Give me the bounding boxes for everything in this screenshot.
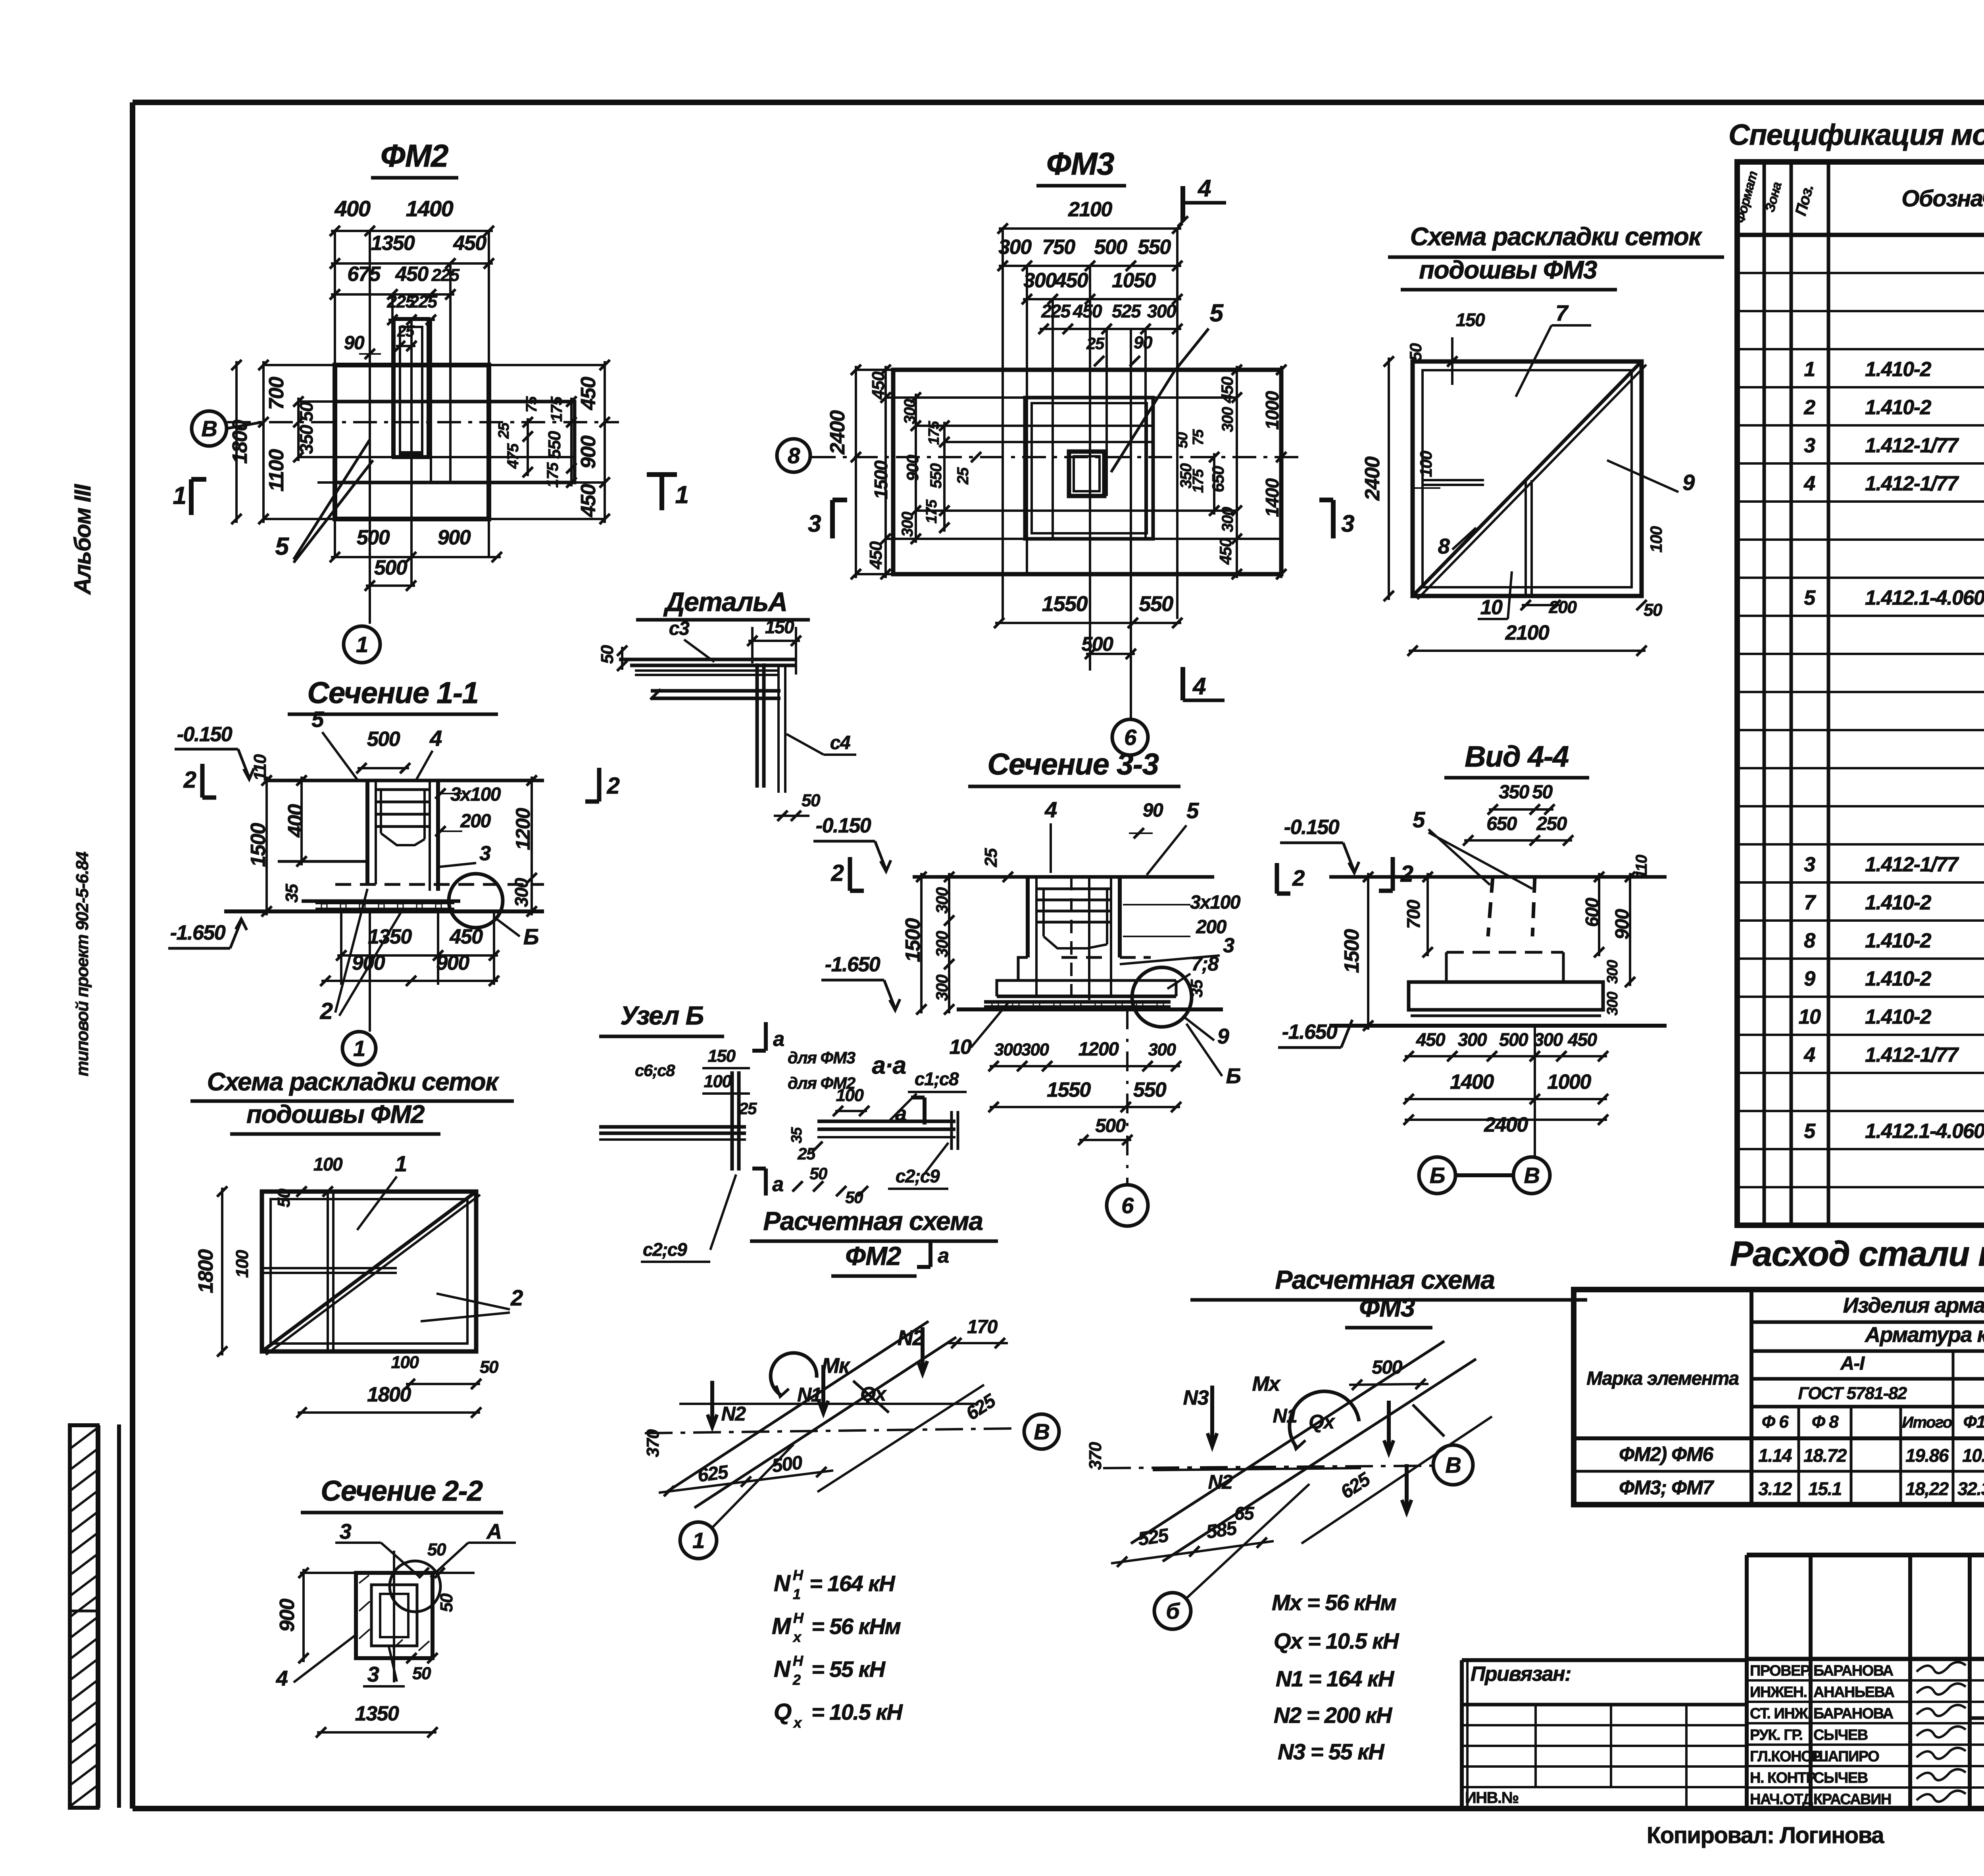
svg-text:25: 25 [954, 467, 972, 485]
svg-text:90: 90 [1143, 800, 1163, 821]
svg-text:5: 5 [1210, 300, 1224, 327]
svg-text:225: 225 [431, 265, 460, 285]
svg-text:ФМ2: ФМ2 [845, 1241, 901, 1271]
section flag 3 right [1331, 500, 1336, 538]
dim 700 view44 [1426, 873, 1429, 956]
svg-text:50: 50 [427, 1540, 446, 1559]
svg-text:300: 300 [1458, 1029, 1487, 1050]
spec table row lines [1737, 272, 1984, 274]
svg-text:25: 25 [397, 323, 415, 340]
section flag 1 right [659, 475, 664, 510]
svg-text:3: 3 [479, 842, 491, 865]
svg-text:N1: N1 [797, 1384, 821, 1406]
steel table frame [1574, 1290, 1984, 1505]
mesh FM3 square [1413, 361, 1642, 596]
svg-text:а: а [895, 1102, 906, 1125]
svg-text:СТ. ИНЖ.: СТ. ИНЖ. [1750, 1705, 1811, 1722]
svg-text:100: 100 [1647, 526, 1665, 553]
svg-text:НАЧ.ОТД: НАЧ.ОТД [1750, 1791, 1813, 1808]
svg-text:15.1: 15.1 [1808, 1478, 1842, 1499]
bottom dim 1550 550 sec33 [990, 1106, 1180, 1108]
svg-text:10: 10 [1799, 1005, 1821, 1028]
svg-text:1800: 1800 [367, 1383, 411, 1406]
svg-text:400: 400 [335, 196, 371, 221]
svg-text:х: х [793, 1715, 802, 1731]
svg-text:ФМ3; ФМ7: ФМ3; ФМ7 [1619, 1476, 1714, 1499]
svg-text:300: 300 [1148, 1040, 1177, 1059]
svg-text:500: 500 [357, 526, 390, 549]
svg-text:370: 370 [643, 1429, 663, 1457]
svg-text:900: 900 [438, 526, 471, 549]
svg-text:8: 8 [1438, 534, 1450, 558]
svg-text:8: 8 [1804, 929, 1815, 952]
svg-text:350: 350 [296, 425, 317, 454]
svg-text:550: 550 [927, 463, 945, 488]
svg-text:150: 150 [708, 1046, 736, 1066]
svg-text:3: 3 [808, 510, 821, 537]
svg-text:СЫЧЕВ: СЫЧЕВ [1813, 1727, 1868, 1743]
sec33 column walls [1026, 877, 1030, 957]
section 2-2 inner box [380, 1594, 408, 1637]
left dim 1500 view44 [1367, 873, 1369, 1030]
svg-text:450: 450 [395, 263, 429, 286]
bottom dimension 500 [366, 584, 415, 587]
sec33 step outline [997, 957, 1028, 996]
right dimension chain 450 900 450 [604, 361, 606, 523]
svg-text:110: 110 [1633, 855, 1650, 879]
left dimension 1500 400 110 [265, 777, 268, 915]
plan FM3 horizontal axis [812, 456, 1302, 458]
calc FM2 circle V [1024, 1414, 1059, 1449]
svg-text:типовой проект 902-5-6.84: типовой проект 902-5-6.84 [73, 852, 92, 1076]
svg-text:Привязан:: Привязан: [1471, 1663, 1571, 1686]
svg-text:Сечение 2-2: Сечение 2-2 [321, 1475, 483, 1507]
step line of section 1-1 [278, 860, 367, 863]
svg-text:300: 300 [1219, 407, 1236, 432]
svg-text:Qх = 10.5 кН: Qх = 10.5 кН [1274, 1628, 1400, 1653]
svg-text:ГЛ.КОНСР: ГЛ.КОНСР [1750, 1748, 1821, 1765]
svg-text:300: 300 [901, 399, 919, 424]
svg-text:2400: 2400 [1361, 456, 1384, 501]
svg-text:700: 700 [265, 377, 288, 410]
mesh FM3 dim 2400 left [1388, 358, 1390, 600]
svg-text:с4: с4 [830, 732, 850, 753]
svg-text:1: 1 [1804, 358, 1815, 381]
svg-text:Схема раскладки сеток: Схема раскладки сеток [207, 1067, 500, 1096]
svg-text:7;8: 7;8 [1191, 953, 1219, 975]
plan FM3 mesh rect [1025, 398, 1153, 539]
svg-text:Узел Б: Узел Б [620, 1001, 704, 1030]
calc FM3 circle V [1433, 1445, 1473, 1485]
svg-text:1.412.1-4.060: 1.412.1-4.060 [1865, 586, 1984, 609]
svg-text:2400: 2400 [826, 410, 849, 455]
bottom dim chain 300 300 1200 300 [990, 1065, 1180, 1067]
svg-text:300: 300 [932, 887, 951, 914]
svg-text:РУК. ГР.: РУК. ГР. [1750, 1727, 1803, 1743]
svg-text:6: 6 [1124, 725, 1137, 750]
svg-text:19.86: 19.86 [1905, 1445, 1949, 1466]
svg-text:1.412-1/77: 1.412-1/77 [1865, 472, 1959, 495]
svg-text:50: 50 [412, 1664, 431, 1683]
section flag 4 bottom [1180, 667, 1185, 700]
svg-text:1500: 1500 [871, 460, 891, 499]
svg-text:1500: 1500 [902, 918, 925, 962]
section flag 2 left [200, 764, 205, 798]
detail A vertical bars [756, 663, 759, 788]
flag a bottom uzel [764, 1169, 768, 1196]
bottom dimension 900 900 [321, 980, 498, 982]
left dim chain 175 550 175 [943, 422, 946, 532]
axis circle 6 bottom [1112, 719, 1148, 755]
svg-text:750: 750 [1042, 236, 1075, 259]
bottom dim 1550 550 [995, 622, 1181, 624]
svg-text:1050: 1050 [1112, 269, 1156, 292]
section flag 4 top [1180, 186, 1185, 221]
svg-text:3: 3 [1341, 510, 1354, 537]
svg-text:1550: 1550 [1047, 1078, 1091, 1101]
svg-text:5: 5 [275, 533, 290, 560]
svg-text:= 56 кНм: = 56 кНм [811, 1614, 901, 1639]
svg-text:200: 200 [460, 811, 491, 832]
svg-text:175: 175 [923, 499, 940, 523]
svg-text:1400: 1400 [406, 196, 454, 221]
svg-text:700: 700 [1403, 900, 1424, 929]
section 2-2 outer box [356, 1573, 433, 1658]
svg-text:300: 300 [1021, 1040, 1050, 1059]
svg-text:50: 50 [1406, 343, 1425, 361]
svg-text:с6;с8: с6;с8 [635, 1061, 675, 1080]
mesh FM3 diagonal [1413, 361, 1642, 596]
svg-text:75: 75 [1190, 429, 1207, 446]
left dimension chain 1800 [235, 361, 238, 523]
plan FM3 extension verticals [1002, 229, 1004, 619]
svg-text:450: 450 [1055, 269, 1088, 292]
svg-text:1500: 1500 [1340, 929, 1363, 973]
svg-text:300: 300 [932, 931, 951, 957]
svg-text:450: 450 [866, 541, 886, 570]
right dimension 1200 300 [531, 777, 533, 915]
svg-text:500: 500 [367, 728, 400, 751]
svg-text:90: 90 [344, 333, 365, 354]
svg-text:900: 900 [276, 1599, 299, 1632]
plan FM3 extension horizontals [856, 369, 1281, 371]
right dim chain 450 300 300 450 [1236, 366, 1238, 578]
svg-text:Мк: Мк [821, 1354, 850, 1378]
calc FM2 crossbar [679, 1403, 841, 1405]
vertical axis to circle 6 [1126, 1009, 1128, 1183]
svg-text:1000: 1000 [1547, 1071, 1591, 1094]
svg-text:10: 10 [1480, 596, 1503, 619]
svg-text:550: 550 [545, 431, 564, 459]
svg-text:2: 2 [792, 1672, 801, 1688]
svg-text:1800: 1800 [229, 420, 252, 464]
left dim chain 450 1500 450 [884, 366, 887, 578]
svg-text:175: 175 [926, 421, 942, 445]
left margin stamp hatched strip [70, 1425, 98, 1808]
bottom dim 2400 view44 [1405, 1119, 1607, 1121]
svg-text:10: 10 [950, 1036, 972, 1059]
calc FM3 moment arc [1290, 1392, 1359, 1447]
svg-text:500: 500 [1082, 633, 1114, 655]
svg-text:N2 = 200 кН: N2 = 200 кН [1274, 1703, 1393, 1728]
section flag 1 left [189, 479, 194, 515]
svg-text:475: 475 [504, 443, 522, 469]
svg-text:25: 25 [496, 422, 512, 439]
mesh FM2 inner border offset [271, 1199, 467, 1344]
section 1-1 column walls [365, 780, 369, 884]
svg-text:1: 1 [395, 1151, 407, 1176]
flag a top [764, 1022, 768, 1051]
section 1-1 extension verticals below base [340, 911, 342, 985]
svg-text:М: М [772, 1613, 792, 1639]
svg-text:175: 175 [1190, 469, 1207, 493]
svg-text:ДетальА: ДетальА [663, 587, 787, 617]
svg-text:4: 4 [1803, 1044, 1815, 1067]
svg-text:450: 450 [449, 925, 483, 948]
left dim chain 300 900 300 [915, 394, 917, 543]
svg-text:25: 25 [1086, 334, 1105, 353]
flag a top right [923, 1098, 927, 1124]
svg-text:Б: Б [1226, 1064, 1241, 1088]
svg-text:1200: 1200 [1079, 1039, 1119, 1060]
svg-text:3х100: 3х100 [450, 784, 501, 805]
svg-text:2100: 2100 [1068, 198, 1112, 221]
svg-text:4: 4 [429, 726, 442, 751]
svg-text:100: 100 [233, 1250, 252, 1278]
svg-text:18,22: 18,22 [1905, 1478, 1949, 1499]
svg-text:500: 500 [1094, 236, 1127, 259]
svg-text:675: 675 [347, 263, 381, 286]
svg-text:25: 25 [797, 1144, 816, 1163]
svg-text:-0.150: -0.150 [1284, 816, 1340, 839]
svg-text:300: 300 [1219, 507, 1236, 532]
dim 900 left [302, 1569, 305, 1662]
svg-text:СЫЧЕВ: СЫЧЕВ [1813, 1770, 1868, 1786]
svg-text:1400: 1400 [1450, 1071, 1494, 1094]
svg-text:50: 50 [1174, 432, 1191, 448]
dim 2100 top [999, 227, 1181, 230]
svg-text:1500: 1500 [247, 823, 270, 867]
svg-text:а: а [938, 1244, 949, 1267]
section flag 2 view44 [1275, 863, 1279, 894]
svg-text:35: 35 [1187, 979, 1206, 998]
calc FM3 dims 525 585 bottom [1111, 1541, 1274, 1563]
svg-text:35: 35 [788, 1127, 805, 1144]
mesh FM3 dim 2100 bottom [1409, 650, 1646, 652]
axis circle 8 [777, 439, 810, 472]
svg-text:3х100: 3х100 [1190, 892, 1241, 913]
svg-text:Расчетная схема: Расчетная схема [1275, 1265, 1494, 1294]
view44 dashed anchor bars [1488, 877, 1493, 936]
svg-text:175: 175 [544, 462, 561, 488]
svg-text:525: 525 [1112, 301, 1142, 321]
plan FM2 extension horizontals [263, 364, 605, 366]
section flag 2 left sec33 [848, 857, 852, 891]
svg-text:подошвы ФМ2: подошвы ФМ2 [246, 1100, 425, 1128]
mesh FM2 inner horizontal bar [262, 1267, 397, 1269]
svg-text:4: 4 [1192, 673, 1206, 700]
svg-text:Qх: Qх [1309, 1411, 1335, 1433]
calc FM2 arrow N2 right [921, 1327, 925, 1373]
right dimension chain 75 550 175 [570, 398, 573, 486]
svg-text:1.410-2: 1.410-2 [1865, 1005, 1931, 1028]
svg-text:4: 4 [276, 1666, 288, 1690]
svg-text:400: 400 [284, 804, 307, 838]
svg-text:БАРАНОВА: БАРАНОВА [1813, 1663, 1894, 1679]
svg-text:50: 50 [802, 791, 821, 810]
svg-text:ФМ3: ФМ3 [1359, 1293, 1415, 1322]
svg-text:300: 300 [1604, 960, 1621, 984]
svg-text:N3 = 55 кН: N3 = 55 кН [1278, 1739, 1385, 1764]
dim 1350 bottom [317, 1731, 436, 1734]
svg-text:225: 225 [1041, 301, 1071, 321]
svg-text:1: 1 [692, 1528, 704, 1553]
svg-text:Обозначение: Обозначение [1901, 186, 1984, 211]
mesh FM3 inner horizontal stub [1423, 479, 1484, 481]
section 1-1 ground base line [224, 909, 544, 913]
view44 ground top line [1329, 875, 1667, 879]
dim chain 300 750 500 550 top [999, 265, 1181, 267]
bottom dim 500 [1086, 653, 1135, 655]
svg-text:б: б [1166, 1599, 1180, 1624]
svg-text:150: 150 [1456, 309, 1485, 330]
plan FM2 horizontal axis line [227, 421, 619, 423]
svg-text:N: N [774, 1656, 791, 1682]
bottom dim 500 sec33 [1079, 1139, 1131, 1141]
svg-text:170: 170 [967, 1317, 998, 1338]
svg-text:1800: 1800 [194, 1249, 217, 1293]
svg-text:В: В [202, 416, 217, 441]
svg-text:10.8: 10.8 [1962, 1445, 1984, 1466]
calc FM3 arrow N2 [1405, 1464, 1409, 1512]
svg-text:225: 225 [409, 292, 438, 311]
svg-text:1: 1 [353, 1036, 365, 1061]
svg-text:1.14: 1.14 [1758, 1445, 1792, 1466]
svg-text:ИНВ.№: ИНВ.№ [1465, 1789, 1519, 1807]
svg-text:1: 1 [356, 632, 368, 657]
svg-text:4: 4 [1044, 797, 1057, 822]
svg-text:100: 100 [1417, 451, 1435, 477]
mesh FM3 inner border offset [1423, 370, 1632, 587]
svg-text:= 10.5 кН: = 10.5 кН [811, 1699, 903, 1724]
svg-text:1: 1 [173, 482, 186, 509]
svg-text:подошвы ФМ3: подошвы ФМ3 [1419, 256, 1597, 284]
calc FM3 arrow N1 [1387, 1401, 1391, 1452]
svg-text:175: 175 [548, 396, 565, 422]
svg-text:300: 300 [998, 236, 1032, 259]
svg-text:N2: N2 [1208, 1471, 1233, 1493]
section 1-1 mesh hooks in column [376, 788, 430, 791]
svg-text:1.410-2: 1.410-2 [1865, 929, 1931, 952]
svg-text:550: 550 [1133, 1078, 1167, 1101]
svg-text:500: 500 [1095, 1115, 1126, 1136]
calc FM3 circle 6 [1154, 1593, 1191, 1629]
svg-text:Б: Б [523, 924, 538, 949]
plan FM3 pad outline [893, 370, 1281, 574]
svg-text:32.35: 32.35 [1957, 1478, 1984, 1499]
sec33 mesh hooks [1036, 888, 1111, 890]
calc FM2 circle 1 [680, 1522, 717, 1559]
svg-text:ШАПИРО: ШАПИРО [1813, 1748, 1879, 1765]
calc FM3 parallelogram lines [1131, 1341, 1444, 1543]
sec33 ground top line [913, 875, 1214, 879]
mesh FM2 dim 1800 bottom [298, 1411, 480, 1414]
svg-text:N3: N3 [1183, 1386, 1209, 1409]
plan FM2 column slot inner [400, 327, 422, 454]
svg-text:Сечение 3-3: Сечение 3-3 [988, 748, 1159, 781]
svg-text:1.410-2: 1.410-2 [1865, 358, 1931, 381]
svg-text:65: 65 [1234, 1503, 1255, 1524]
detail A horizontal bars top [619, 658, 796, 661]
left dimension chain 700 1100 [262, 361, 265, 523]
svg-text:900: 900 [577, 435, 600, 469]
view44 ground base line [1329, 1024, 1667, 1028]
svg-text:5: 5 [1186, 798, 1199, 823]
svg-text:100: 100 [391, 1353, 419, 1372]
svg-text:4: 4 [1198, 175, 1211, 202]
svg-text:300: 300 [511, 878, 532, 907]
svg-text:Копировал: Логинова: Копировал: Логинова [1647, 1822, 1884, 1848]
svg-text:2: 2 [510, 1285, 523, 1310]
svg-text:300: 300 [1147, 301, 1177, 321]
title block signature table [1745, 1555, 1749, 1806]
svg-text:1550: 1550 [1042, 592, 1088, 616]
axis circle V [192, 411, 227, 446]
svg-text:2100: 2100 [1505, 621, 1550, 644]
svg-text:450: 450 [577, 377, 600, 410]
svg-text:АНАНЬЕВА: АНАНЬЕВА [1813, 1684, 1894, 1701]
dim 650 250 top [1464, 839, 1572, 842]
svg-text:1: 1 [793, 1586, 800, 1602]
svg-text:1.412-1/77: 1.412-1/77 [1865, 434, 1959, 457]
section 1-1 base pad [302, 900, 460, 903]
svg-text:4: 4 [1803, 472, 1815, 495]
svg-text:1.412-1/77: 1.412-1/77 [1865, 1044, 1959, 1067]
svg-text:с2;с9: с2;с9 [643, 1239, 687, 1260]
svg-text:N1: N1 [1273, 1405, 1297, 1427]
svg-text:650: 650 [1209, 466, 1227, 492]
spec table header row line [1737, 233, 1984, 237]
svg-text:300: 300 [1534, 1029, 1563, 1050]
svg-text:450: 450 [1567, 1029, 1597, 1050]
svg-text:N2: N2 [898, 1326, 924, 1350]
dim chain 225 450 525 300 [1040, 328, 1181, 330]
svg-text:450: 450 [1216, 538, 1235, 565]
calc FM2 dims 625 500 bottom [659, 1470, 833, 1493]
svg-text:Альбом III: Альбом III [70, 484, 96, 595]
svg-text:а: а [772, 1173, 783, 1196]
svg-text:5: 5 [311, 707, 324, 732]
svg-text:50: 50 [845, 1188, 863, 1207]
svg-text:Ф 6: Ф 6 [1762, 1412, 1789, 1432]
axis circle 1 [344, 626, 380, 663]
svg-text:Ф 8: Ф 8 [1812, 1412, 1839, 1432]
svg-text:Мх = 56 кНм: Мх = 56 кНм [1272, 1590, 1396, 1615]
spec table frame [1737, 162, 1984, 1225]
svg-text:В: В [1034, 1419, 1050, 1444]
view44 pad [1409, 982, 1603, 1010]
section 2-2 detail circle [390, 1561, 440, 1612]
svg-text:350: 350 [1499, 782, 1529, 803]
bottom dimension 1350 450 [337, 954, 498, 957]
svg-text:500: 500 [1372, 1357, 1402, 1378]
svg-text:2400: 2400 [1484, 1113, 1528, 1136]
mesh FM2 inner vertical bar [327, 1192, 329, 1351]
steel table header row lines [1751, 1321, 1984, 1324]
svg-text:110: 110 [250, 754, 270, 781]
svg-text:2: 2 [607, 773, 620, 799]
section flag 3 left [830, 500, 835, 538]
